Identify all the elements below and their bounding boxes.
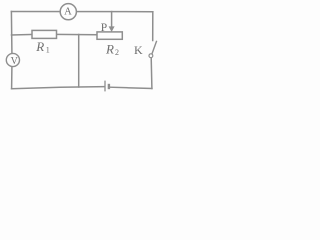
switch K — [134, 41, 157, 58]
resistor R1 — [32, 30, 57, 54]
switch blade — [152, 41, 157, 54]
wire right side lower — [150, 58, 153, 89]
svg-text:1: 1 — [46, 46, 50, 55]
battery long plate — [104, 81, 106, 92]
voltmeter V — [6, 53, 19, 67]
switch hinge circle — [149, 54, 153, 58]
rheostat slider arrowhead — [109, 26, 115, 32]
svg-text:A: A — [64, 6, 72, 17]
wire left side — [10, 12, 13, 89]
wire bottom left segment — [12, 87, 105, 89]
wire bottom right segment — [110, 87, 152, 88]
svg-text:V: V — [11, 56, 19, 67]
svg-text:R: R — [35, 39, 44, 54]
battery cell — [105, 81, 109, 92]
ammeter A — [60, 4, 76, 20]
wire right side upper — [152, 12, 154, 41]
svg-text:P: P — [101, 22, 107, 34]
battery short thick plate — [108, 84, 110, 89]
svg-text:R: R — [105, 42, 114, 57]
wire top — [11, 11, 152, 13]
svg-text:K: K — [134, 43, 143, 57]
wire middle horizontal — [12, 33, 98, 36]
rheostat R2 — [97, 32, 122, 57]
wire rheostat slider riser — [111, 12, 113, 29]
svg-text:2: 2 — [115, 48, 119, 57]
wire vertical branch — [78, 35, 80, 88]
